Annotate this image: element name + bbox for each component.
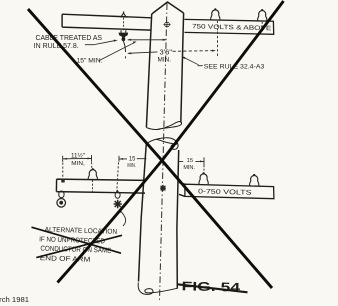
svg-text:IN RULE 57.8.: IN RULE 57.8. xyxy=(34,43,79,50)
strikethrough over FIG. 54 xyxy=(178,284,248,292)
pole break lower wave xyxy=(146,138,178,150)
leader from note to clamp xyxy=(120,210,126,226)
lower crossarm stub right of pole xyxy=(179,183,185,197)
strikeout line A over note xyxy=(32,227,122,253)
dimension 11.5in ticks and line xyxy=(63,155,92,162)
through-bolt star on lower arm at pole xyxy=(160,185,166,191)
leader from cable note to clamp xyxy=(85,41,114,45)
upper crossarm left section xyxy=(62,14,151,30)
svg-text:MIN.: MIN. xyxy=(183,165,195,171)
pole upper-left edge xyxy=(146,14,151,127)
label box 0-750 VOLTS xyxy=(185,184,274,199)
insulator P2 drop line xyxy=(261,22,263,33)
pole break upper wave xyxy=(146,122,181,130)
clamp hanging at lower arm left end xyxy=(57,191,66,208)
pole centerline xyxy=(160,4,168,302)
through-bolt at pole top xyxy=(163,22,170,27)
insulator P1 drop line xyxy=(216,21,218,32)
conductor end star xyxy=(114,200,122,208)
pole lower-left edge xyxy=(139,145,147,282)
insulator P3 drop dashed above xyxy=(91,162,93,170)
svg-text:15: 15 xyxy=(187,158,194,164)
clamp with conductor end below lower arm xyxy=(115,190,120,198)
insulator P4 on lower arm right xyxy=(199,173,208,184)
pole upper-right edge xyxy=(181,13,184,123)
svg-text:March 1981: March 1981 xyxy=(0,295,29,304)
nut on lower arm at left bolt xyxy=(61,179,64,182)
bolt dashes at lower arm left end xyxy=(62,163,64,180)
drop dashed from tick to clamp below arm xyxy=(117,162,119,191)
insulator P2 on upper box xyxy=(258,10,267,21)
svg-text:MIN,: MIN, xyxy=(71,161,85,167)
svg-text:CABLE TREATED AS: CABLE TREATED AS xyxy=(36,35,103,42)
insulator P1 on upper box xyxy=(211,9,220,20)
leader from SEE RULE note xyxy=(184,58,203,66)
svg-text:0-750 VOLTS: 0-750 VOLTS xyxy=(198,188,252,196)
pin drop dashed through arm xyxy=(123,18,125,31)
svg-text:FIG. 54: FIG. 54 xyxy=(181,279,240,294)
svg-text:MIN.: MIN. xyxy=(158,57,172,64)
dashes below right tick xyxy=(203,169,205,173)
svg-text:15: 15 xyxy=(129,155,136,162)
label box 750 VOLTS & ABOVE xyxy=(184,19,273,34)
dimension 3ft6in cable to conductor xyxy=(128,52,158,53)
insulator P3 drop dashed through arm xyxy=(92,180,94,192)
cable hanging from clamp xyxy=(123,41,125,52)
svg-text:11½": 11½" xyxy=(71,153,85,160)
leader from 15in MIN to dimension xyxy=(99,43,134,61)
conductor drop dashed below upper box xyxy=(217,32,219,59)
svg-text:3'6": 3'6" xyxy=(160,47,173,56)
dimension clamp to pole centerline xyxy=(128,39,166,41)
cable continuation dash xyxy=(125,56,127,58)
svg-text:MIN.: MIN. xyxy=(127,163,136,169)
pole bottom break loop xyxy=(138,283,177,295)
big X stroke 1 xyxy=(28,9,272,288)
insulator P5 on lower box xyxy=(250,174,259,185)
cable clamp hanging below upper arm xyxy=(119,30,129,41)
dimension 15in left of pole xyxy=(119,156,146,162)
dimension 15in right of pole xyxy=(178,157,204,167)
svg-text:15" MIN.: 15" MIN. xyxy=(77,57,103,64)
pole apex knob xyxy=(167,1,169,3)
lower crossarm left section xyxy=(56,179,145,193)
strikeout line B over note xyxy=(36,235,122,257)
pole top gable xyxy=(152,2,184,14)
big X stroke 2 xyxy=(58,1,284,283)
pin cap on upper-left arm xyxy=(121,11,127,17)
pole lower-right edge xyxy=(177,150,179,289)
insulator P3 on lower arm xyxy=(88,169,97,180)
